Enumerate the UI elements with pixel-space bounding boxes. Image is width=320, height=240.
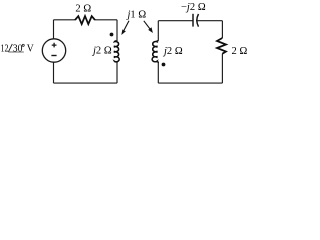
svg-text:V: V [27,43,35,54]
svg-text:j1 Ω: j1 Ω [126,10,147,21]
svg-text:j2 Ω: j2 Ω [91,46,112,57]
svg-text:−j2 Ω: −j2 Ω [181,2,206,13]
svg-text:2 Ω: 2 Ω [75,4,91,15]
svg-text:j2 Ω: j2 Ω [162,46,183,57]
svg-text:30: 30 [13,43,23,54]
svg-text:12: 12 [0,44,8,55]
svg-text:2 Ω: 2 Ω [232,46,248,57]
